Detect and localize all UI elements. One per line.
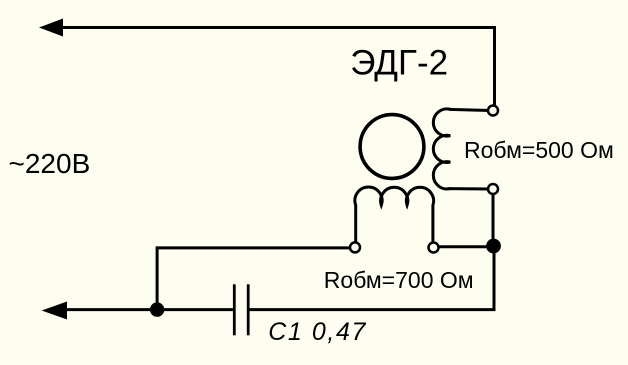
svg-text:~220В: ~220В bbox=[9, 148, 91, 179]
svg-text:C1 0,47: C1 0,47 bbox=[268, 318, 367, 346]
svg-text:Rобм=500 Ом: Rобм=500 Ом bbox=[464, 137, 614, 163]
svg-text:ЭДГ-2: ЭДГ-2 bbox=[350, 44, 448, 83]
svg-text:Rобм=700 Ом: Rобм=700 Ом bbox=[324, 267, 474, 293]
